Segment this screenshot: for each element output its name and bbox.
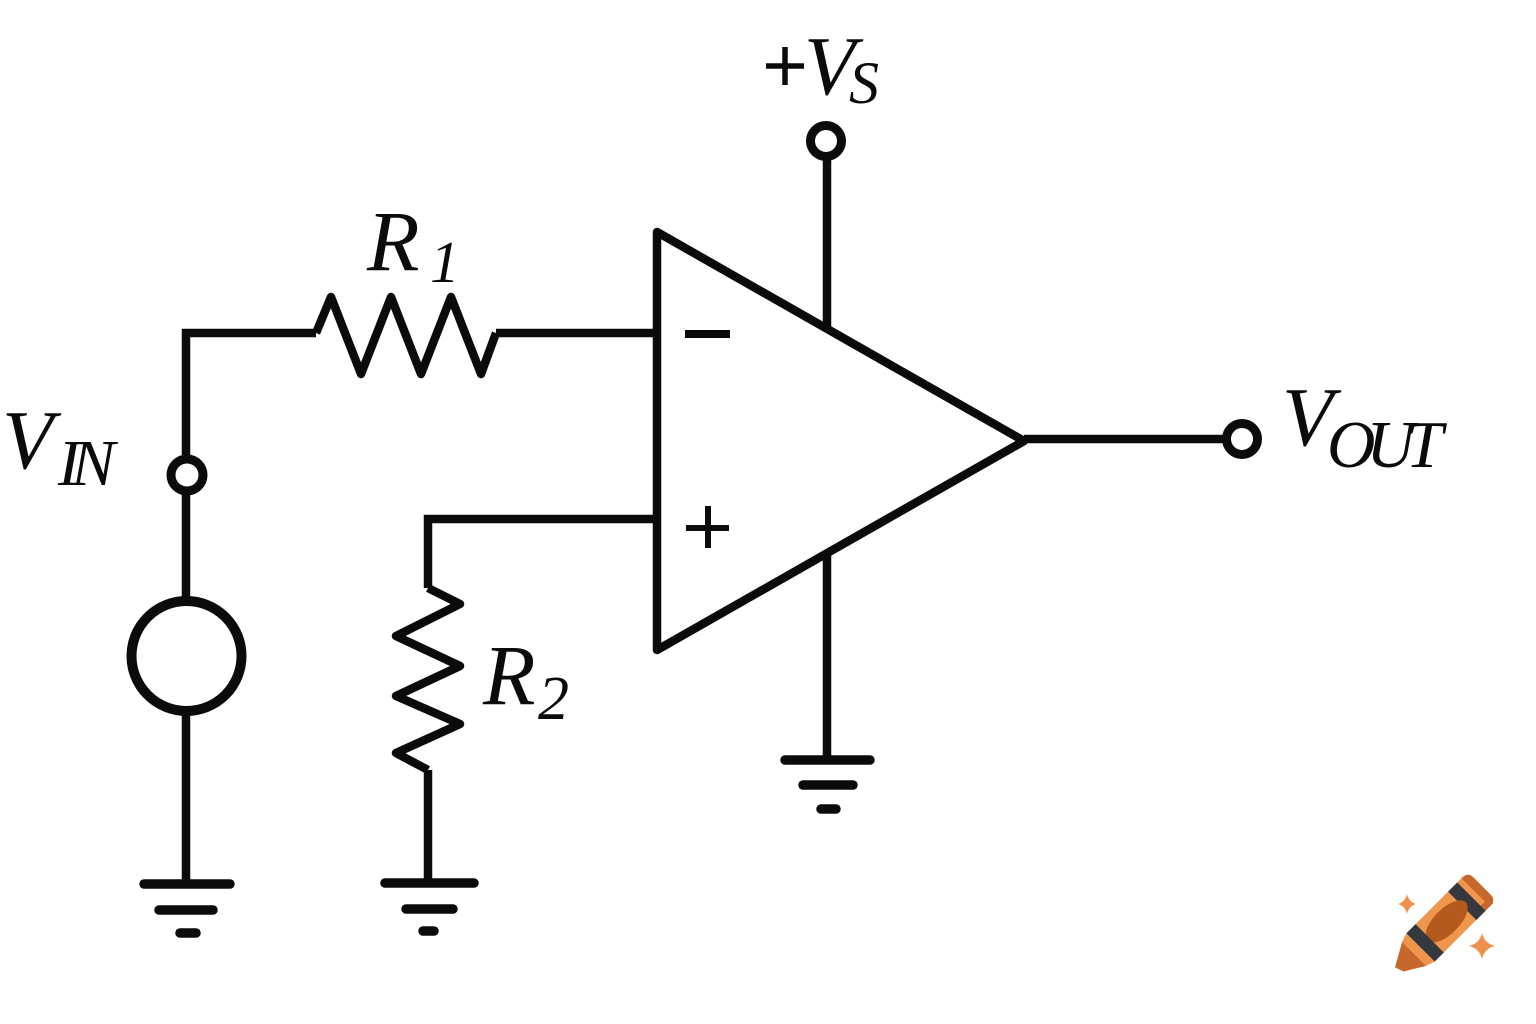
ground (under VIN source) [144,884,230,933]
ground (under R2) [385,883,474,931]
label R1 [366,193,460,295]
resistor R1 [316,297,496,374]
node VIN terminal [171,459,203,491]
wire: +Vs terminal down to op-amp top [823,159,832,330]
svg-text:IN: IN [57,427,119,500]
wire: R1 to inverting input [496,329,657,338]
label +VS [766,20,879,116]
label VIN [2,394,119,500]
watermark: small sparkle [1398,894,1416,914]
resistor R2 [396,588,460,770]
wire: source bottom to ground [182,714,191,884]
svg-text:V: V [2,394,62,487]
wire: Vin node to R1 and down to Vin terminal [186,333,316,455]
node VOUT terminal [1227,424,1258,455]
svg-text:OUT: OUT [1327,408,1448,482]
wire: R2 bottom to ground [424,770,433,884]
watermark: big sparkle [1469,933,1495,959]
source V1 (voltage source circle) [132,601,242,711]
svg-text:S: S [849,50,879,116]
svg-text:2: 2 [538,665,569,733]
svg-text:R: R [482,627,536,723]
svg-text:1: 1 [430,229,460,295]
wire: op-amp bottom to ground [823,551,832,761]
wire: Vin terminal to source top [182,494,191,598]
label R2 [482,627,569,733]
node +VS terminal [811,126,842,157]
wire: op-amp output to Vout terminal [1024,435,1223,444]
op-amp minus pin label [685,330,730,338]
op-amp U1 [657,232,1024,650]
ground (under op-amp) [785,760,870,809]
svg-text:R: R [366,193,420,289]
watermark: crayon logo [1384,872,1496,984]
op-amp plus pin label [686,506,729,548]
label VOUT [1282,371,1448,482]
wire: non-inverting input from R2 corner [428,519,657,588]
